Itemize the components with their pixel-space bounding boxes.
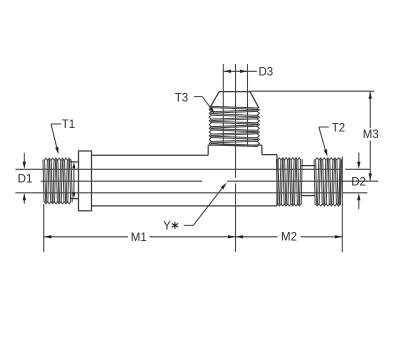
svg-text:D3: D3 (258, 66, 273, 78)
svg-text:M1: M1 (131, 232, 147, 244)
svg-text:D1: D1 (18, 174, 33, 186)
svg-text:T3: T3 (175, 93, 188, 105)
svg-text:T2: T2 (332, 123, 345, 135)
svg-text:T1: T1 (62, 119, 75, 131)
svg-text:D2: D2 (351, 177, 366, 189)
svg-text:M3: M3 (363, 129, 379, 141)
svg-text:Y: Y (163, 221, 171, 233)
svg-text:M2: M2 (281, 232, 297, 244)
